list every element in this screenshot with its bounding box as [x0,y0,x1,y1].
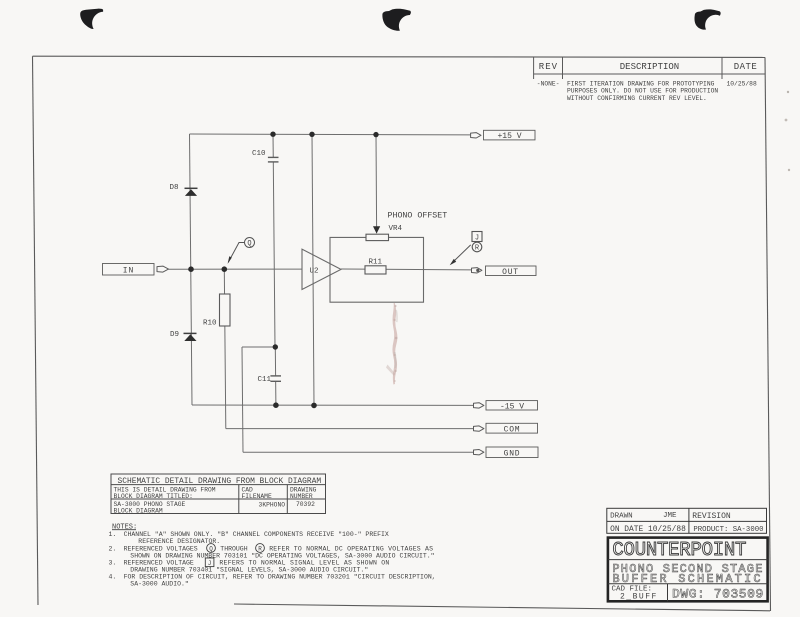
svg-text:Q: Q [209,546,213,553]
svg-text:OUT: OUT [502,268,519,277]
svg-text:-NONE-: -NONE- [537,80,560,87]
svg-text:J: J [208,560,212,567]
svg-text:ON DATE 10/25/88: ON DATE 10/25/88 [610,525,686,534]
svg-text:1.: 1. [109,531,117,538]
svg-text:3.: 3. [109,560,117,567]
svg-text:BLOCK DIAGRAM TITLED:: BLOCK DIAGRAM TITLED: [114,493,193,500]
svg-text:REV: REV [539,62,558,72]
svg-text:R11: R11 [369,258,383,266]
svg-text:+15 V: +15 V [497,132,521,141]
svg-text:FILENAME: FILENAME [242,493,272,500]
svg-text:C11: C11 [258,376,272,384]
svg-text:JME: JME [663,512,677,520]
svg-text:C10: C10 [252,150,266,158]
svg-text:PURPOSES ONLY. DO NOT USE FOR: PURPOSES ONLY. DO NOT USE FOR PRODUCTION [567,88,718,95]
svg-text:3KPHONO: 3KPHONO [259,501,286,508]
svg-text:10/25/88: 10/25/88 [727,80,757,87]
svg-text:CHANNEL "A" SHOWN ONLY. "B" CH: CHANNEL "A" SHOWN ONLY. "B" CHANNEL COMP… [124,531,389,538]
svg-text:4.: 4. [109,573,117,580]
svg-text:DESCRIPTION: DESCRIPTION [620,62,679,72]
svg-text:2.: 2. [109,545,117,552]
svg-text:GND: GND [504,449,521,458]
svg-text:Q: Q [247,240,251,248]
svg-text:-15 V: -15 V [500,402,524,411]
svg-text:THROUGH: THROUGH [220,545,247,552]
svg-text:D8: D8 [170,184,179,192]
svg-text:IN: IN [123,267,135,276]
svg-text:70392: 70392 [296,501,315,508]
svg-text:SHOWN ON DRAWING NUMBER 703101: SHOWN ON DRAWING NUMBER 703101 "DC OPERA… [130,552,434,559]
svg-text:DWG: 703509: DWG: 703509 [672,587,764,602]
svg-text:2_BUFF: 2_BUFF [620,592,658,601]
svg-text:PHONO OFFSET: PHONO OFFSET [388,211,448,220]
svg-text:REVISION: REVISION [692,512,731,521]
svg-text:REFERENCE DESIGNATOR.: REFERENCE DESIGNATOR. [138,538,220,545]
svg-text:SA-3000 AUDIO.": SA-3000 AUDIO." [130,580,189,587]
svg-text:VR4: VR4 [389,225,403,233]
svg-text:R: R [258,546,262,553]
svg-text:DRAWN: DRAWN [610,512,633,520]
svg-text:DRAWING NUMBER 703401 "SIGNAL: DRAWING NUMBER 703401 "SIGNAL LEVELS, SA… [130,566,368,573]
svg-text:BUFFER SCHEMATIC: BUFFER SCHEMATIC [612,572,762,586]
svg-text:BLOCK DIAGRAM: BLOCK DIAGRAM [114,508,163,515]
svg-text:U2: U2 [310,267,319,275]
svg-text:DATE: DATE [734,62,758,72]
svg-text:COM: COM [504,425,521,434]
svg-text:NUMBER: NUMBER [290,493,313,500]
svg-text:PRODUCT: SA-3000: PRODUCT: SA-3000 [693,526,763,534]
svg-text:COUNTERPOINT: COUNTERPOINT [612,539,746,561]
svg-text:SCHEMATIC DETAIL DRAWING FROM: SCHEMATIC DETAIL DRAWING FROM BLOCK DIAG… [118,477,322,486]
svg-text:FIRST ITERATION DRAWING FOR PR: FIRST ITERATION DRAWING FOR PROTOTYPING [567,80,715,87]
svg-text:FOR DESCRIPTION OF CIRCUIT, RE: FOR DESCRIPTION OF CIRCUIT, REFER TO DRA… [124,573,436,580]
svg-text:REFER TO NORMAL DC OPERATING V: REFER TO NORMAL DC OPERATING VOLTAGES AS [269,545,433,552]
svg-text:WITHOUT CONFIRMING CURRENT REV: WITHOUT CONFIRMING CURRENT REV LEVEL. [567,95,707,102]
svg-text:D9: D9 [170,331,179,339]
svg-text:REFERENCED VOLTAGES: REFERENCED VOLTAGES [124,545,198,552]
svg-text:R10: R10 [203,320,217,328]
svg-text:J: J [475,235,479,243]
